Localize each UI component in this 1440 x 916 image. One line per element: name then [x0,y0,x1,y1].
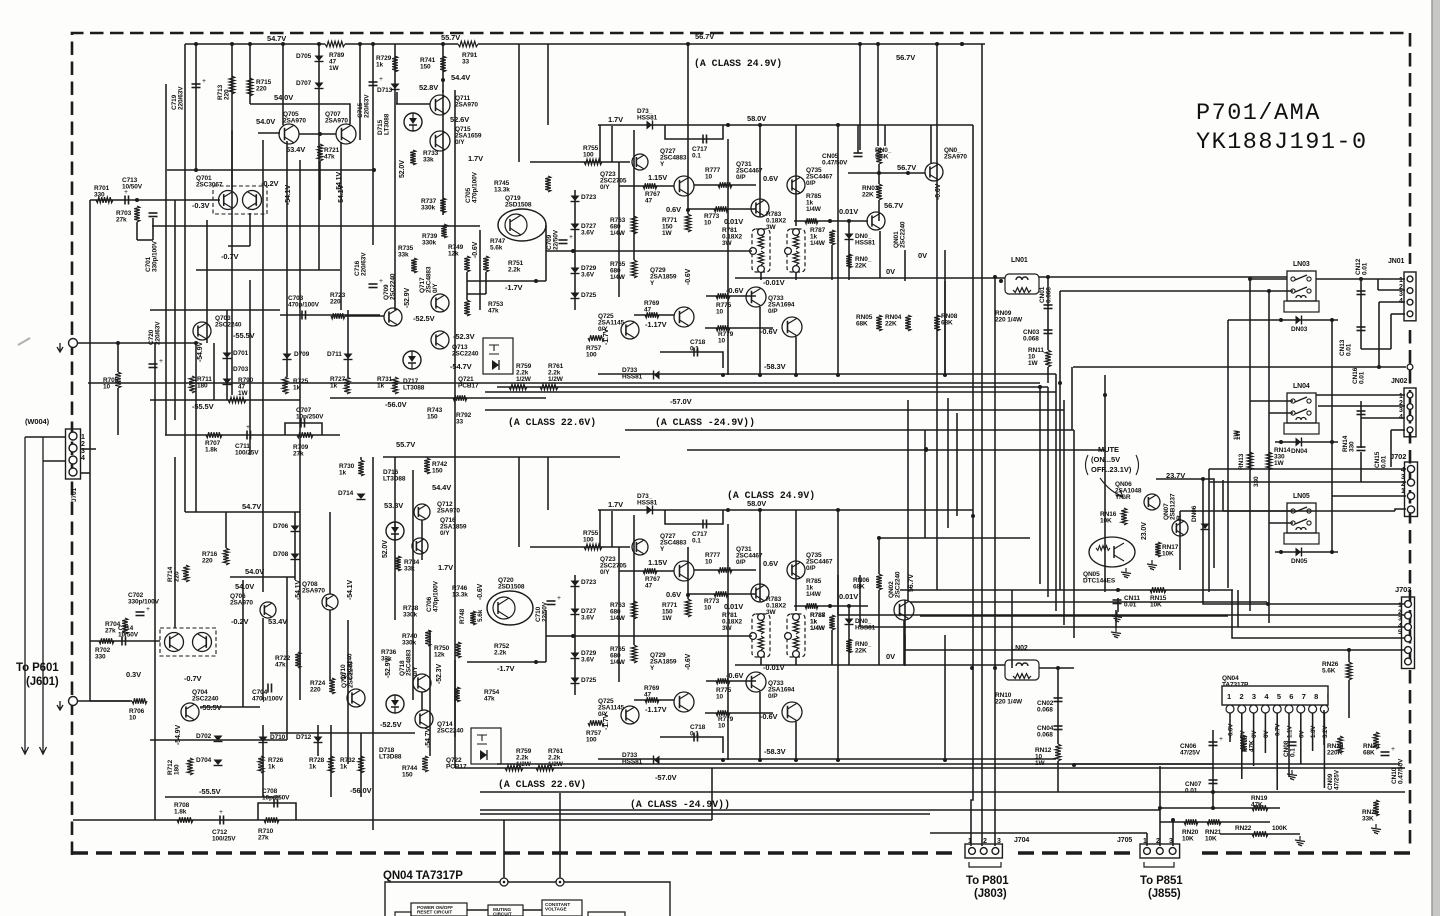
wire wire q733 e ch2 [759,692,761,759]
wire wire r775 ch2 [706,680,756,682]
wire bus v 1056 [1055,374,1057,611]
resistor R725 [282,377,288,394]
node node mid251 ch2 [571,634,575,638]
resistor R702 [99,638,114,644]
photocoupler D715 photocoupler [404,113,422,131]
wire wire QN04 pin4 [1264,713,1266,753]
wire wire pr2 low ch1 [795,272,797,280]
wire xv 348b [347,620,349,764]
svg-text:-0.3V: -0.3V [192,201,210,210]
wire stub d723 ch1 [574,190,576,310]
svg-text:DN03: DN03 [1291,326,1308,333]
wire stub D705 [318,44,320,104]
diode D712 [314,737,323,743]
resistor R779 inline ch2 [716,710,730,716]
wire W004 top right [77,342,196,344]
resistor R723 [331,313,345,319]
svg-text:-57.0V: -57.0V [655,773,677,782]
svg-text:(W004): (W004) [25,417,50,426]
wire wire r779 ch1 [705,327,773,329]
wire wire QN04 pin5 [1276,713,1278,790]
capacitor CN14b [1357,411,1366,415]
svg-text:(A CLASS -24.9V)): (A CLASS -24.9V)) [630,799,730,810]
wire wire q701 base [153,199,220,201]
svg-text:54.0V: 54.0V [256,117,275,126]
wire stub d723 ch2 [574,575,576,695]
resistor R711 [189,376,195,393]
node node 0.01V a ch1 [828,219,832,223]
wire J702 p2 [1332,495,1406,497]
wire bus v 230 [231,130,233,395]
resistor RN07 ch1 [876,148,882,164]
svg-text:-54.1V: -54.1V [347,580,354,600]
diode D725 ch2 [571,678,580,684]
wire wire QN04 pin1 [1229,713,1231,742]
wire wire c703 row [280,314,380,316]
wire xv 443b [442,90,444,215]
resistor R748v [470,611,476,625]
wire col v 838 c2 [837,510,839,760]
capacitor C704 [268,684,272,693]
wire bus v 1040 [1039,385,1041,584]
node node 0.01V b ch1 [847,219,851,223]
photocoupler D718 photocoupler [386,695,404,713]
svg-text:LN03: LN03 [1293,261,1310,268]
svg-text:+: + [1219,735,1223,743]
svg-text:RN13: RN13 [1238,453,1245,470]
wire wire R703 down [136,222,138,240]
svg-text:J704: J704 [1014,837,1029,844]
transistor Q705 [279,124,299,144]
diode D731 ch1 [647,121,653,130]
wire bus v 165 [165,84,167,435]
node dot w004 [194,341,198,345]
wire xv 175b [174,457,176,628]
resistor R726 [258,756,264,773]
decoration mute paren [1086,455,1139,475]
power resistor R781 ch1 [750,229,770,273]
wire xv 422c [421,520,423,560]
resistor R727 [344,377,350,394]
svg-text:-1.17V: -1.17V [645,320,667,329]
transistor Q717b [431,294,449,312]
wire xr 270 [196,269,340,271]
node node q705 base [318,132,322,136]
node rail junction d [281,42,285,46]
wire J703 w2 stub [837,575,839,615]
wire LN02 right [1039,667,1074,669]
svg-text:P701/AMA: P701/AMA [1196,100,1321,127]
svg-text:D712: D712 [296,734,312,741]
wire xv 486q [485,272,487,294]
svg-text:D723: D723 [581,194,597,201]
resistor R737v [440,198,446,213]
svg-text:-0.7V: -0.7V [184,674,202,683]
diode D729 ch1 [571,268,580,274]
wire bus v 1074 [1073,430,1075,638]
diode DN06 [1201,524,1210,530]
svg-text:D714: D714 [338,490,354,497]
resistor R722 [295,652,301,668]
resistor R744 [422,756,428,772]
wire wire q727 base ch2 [619,570,674,572]
node node rn19 [1211,806,1215,810]
terminal JN02 pin0 [1407,364,1413,370]
wire xv 243 [242,580,244,707]
brace J704 [969,862,1001,867]
wire bus v 1160 [1159,766,1161,846]
svg-text:1.15V: 1.15V [648,558,667,567]
wire xv 118c [117,343,119,372]
resistor RN12 [1055,744,1061,761]
node node DN05 a [1279,550,1283,554]
resistor R785 inline ch2 [805,603,818,609]
transistor Q703 [193,322,211,340]
wire ladder v 948 [947,398,949,528]
node node 58.0V ch2 [758,508,762,512]
node node DN04 b [1330,440,1334,444]
wire wire bottom feedback [73,819,712,821]
wire wire powerres mid ch2 [546,635,752,637]
wire xv 330c [329,512,331,594]
resistor R763 ch2 [631,601,637,619]
svg-text:12345: 12345 [1398,602,1402,636]
wire wire rn07 v ch1 [884,125,886,146]
wire relay row LN04 b [1269,412,1293,414]
wire bus v 945 [944,281,946,375]
resistor R708 [177,817,193,823]
wire JN01 cap col [1360,279,1362,349]
wire long wire 367 [1073,366,1406,368]
capacitor C707 [301,419,305,428]
transistor Q723 ch2 [632,539,648,555]
wire wire q711 base [396,103,430,105]
svg-text:1.7V: 1.7V [438,563,453,572]
svg-text:5.6k: 5.6k [477,609,484,622]
wire J703 w4 [1232,590,1404,638]
wire wire q705 base [258,132,280,134]
wire bus ch1 a [88,382,1040,384]
wire rail2 54.7V [185,511,300,513]
resistor R749v [464,256,470,272]
wire wire CN01 v [1047,277,1049,350]
transistor Q737 ch2 [782,702,802,722]
transistor Q701b [243,191,262,210]
resistor RN11 [1045,350,1051,367]
svg-text:(A CLASS 22.6V): (A CLASS 22.6V) [498,779,586,790]
connector JN01 [1404,272,1416,321]
svg-text:POWER ON/OFFRESET CIRCUIT: POWER ON/OFFRESET CIRCUIT [417,905,453,915]
capacitor C717 ch1 [703,135,707,144]
wire wire gnd mid [1115,610,1117,628]
svg-text:-52.9V: -52.9V [404,288,411,308]
inductor LN02 [1005,660,1039,680]
wire bus v 1118 [1117,598,1119,612]
resistor R767 inline ch1 [643,183,657,189]
svg-text:D709: D709 [294,351,310,358]
wire wire -1.7V row [467,280,546,282]
resistor R707 [206,432,222,438]
transistor Q711 [430,95,450,115]
wire wire DN04 row [1275,441,1338,443]
node bus junction n [970,666,974,670]
wire C708 box [258,803,296,820]
diode D706 [291,526,300,532]
resistor R730v [358,460,364,476]
svg-text:To P601: To P601 [16,662,59,674]
wire col v 760 c2 [759,510,761,602]
node node rn20 [1171,818,1175,822]
wire J701 pin3 left [43,460,66,462]
diode DN04 [1296,438,1302,447]
resistor R747 [483,256,489,272]
wire W004 bottom right [77,700,130,702]
capacitor CN08 [1288,742,1297,746]
svg-text:1W: 1W [1235,429,1242,440]
wire stub R741 [442,44,444,92]
svg-text:JN02: JN02 [1391,378,1408,385]
svg-text:+: + [379,75,383,83]
diode DN03 [1296,316,1302,325]
wire wire RN26 low [1348,680,1350,718]
wire col v 905 c2 [904,635,906,666]
svg-text:-52.5V: -52.5V [380,720,402,729]
svg-text:0.6V: 0.6V [666,590,681,599]
wire bus v 995 [994,277,996,846]
box CONSTANT VOLTAGE [542,900,582,916]
svg-text:1.1V: 1.1V [1287,725,1294,738]
svg-text:-0.6V: -0.6V [472,241,479,258]
node node 0V b [993,666,997,670]
svg-text:-52.5V: -52.5V [413,314,435,323]
wire wire pr1 low ch1 [760,272,762,280]
wire wire 55.7V ch2 [383,456,620,458]
resistor R760 inline [505,765,523,771]
wire wire q737 e ch2 [795,722,797,759]
wire bus ch1 b [497,386,1048,388]
wire col v 600 c2 [599,510,601,547]
resistor R777 inline ch2 [718,567,732,573]
wire wire QN04 pin2 [1241,713,1243,779]
wire bus v 1064 [1063,400,1065,625]
resistor R765 ch2 [631,645,637,663]
node node ladder b [971,514,975,518]
wire bus ch2 a [497,763,1400,765]
wire wire -55.5V row [150,399,300,401]
wire stub 548b ch1 [547,44,549,125]
wire J703 w3b [1237,590,1239,627]
diode D727 ch1 [571,224,580,230]
transistor Q720 big [487,591,533,625]
wire J702 p1 bend [1395,509,1406,511]
svg-text:-58.3V: -58.3V [764,362,786,371]
diode D725 ch1 [571,293,580,299]
wire wire c712 down [711,768,713,820]
wire wire 58.0V ch2 [598,509,973,511]
capacitor C703 [302,311,306,320]
node rail junction k [876,42,880,46]
svg-text:-54.9V: -54.9V [197,342,204,362]
resistor R713 [229,76,235,94]
svg-text:0V: 0V [1298,730,1305,738]
resistor R761 inline [540,384,558,390]
resistor R742v [424,458,430,474]
resistor R765 ch1 [631,260,637,278]
svg-text:-0.6V: -0.6V [1228,723,1235,738]
wire xv 395b [394,117,396,310]
wire bus v 341 [340,142,342,310]
transistor QN03 ch1 [925,163,943,181]
svg-text:0.6V: 0.6V [763,559,778,568]
resistor R785 inline ch1 [805,218,818,224]
wire bus v 937 [936,44,938,590]
resistor RN06 [876,574,882,590]
svg-text:56.7V: 56.7V [908,574,915,592]
wire bus ch2 d [480,809,1160,811]
wire wire qn02 e [903,620,905,665]
svg-text:-52.3V: -52.3V [436,664,443,684]
diode D702 [214,736,223,742]
wire wire r773 ch2 [688,593,756,595]
wire wire r775 ch1 [706,295,756,297]
diode D709 [283,354,292,360]
svg-text:0.01V: 0.01V [724,602,743,611]
resistor RN15 [1150,587,1166,593]
wire CN15 v [1360,452,1362,482]
svg-text:-57.0V: -57.0V [670,397,692,406]
capacitor C708 [274,799,278,808]
wire col v 688b c1 [687,162,689,214]
svg-text:RN22: RN22 [1235,825,1252,832]
svg-text:(A CLASS 24.9V): (A CLASS 24.9V) [727,490,815,501]
box MUTING [488,905,523,916]
wire bus v 1012 [1011,590,1013,668]
svg-text:-54.7V: -54.7V [425,728,432,748]
wire bus v 455b [454,457,456,768]
svg-text:3: 3 [997,838,1001,845]
photocoupler D716 photocoupler [386,522,404,540]
node node 544 [441,78,445,82]
wire wire q701 down [249,213,251,246]
wire xv 430g [429,630,431,756]
resistor R757 ch1 [588,335,604,341]
wire wire 23.7V [1156,479,1214,568]
diode D705 [315,56,324,62]
svg-text:+: + [379,277,383,285]
wire col v 634 c2 [633,515,635,645]
wire xv 348 [347,310,349,377]
node bus junction m [1211,790,1215,794]
diode D711 [344,354,353,360]
wire JN02 cap col [1360,401,1362,448]
connector J701 [66,429,81,479]
resistor R740 [425,630,431,646]
resistor R739v [441,224,447,238]
capacitor CN10 [1381,745,1396,756]
wire xv 287 [286,141,288,377]
resistor R734 [395,556,401,571]
wire J702 p3 [1209,481,1406,483]
svg-text:-54.1V: -54.1V [285,185,292,205]
transistor Q718t [413,674,431,692]
wire bus v 300 [299,160,301,512]
capacitor C701 [149,213,158,217]
svg-text:-0.6V: -0.6V [685,653,692,670]
node rail junction m [960,42,964,46]
resistor R753 [464,300,470,316]
node dot 118 [116,341,120,345]
node node relay feed2 [1267,289,1271,293]
node bus junction d [1058,381,1062,385]
transistor Q715 [430,131,450,151]
wire 0V row ch1 [735,277,1005,279]
capacitor C719 [192,77,207,88]
resistor R715 [247,78,253,96]
resistor R732 [358,756,364,773]
transistor Q725 ch2 [621,706,639,724]
resistor R767 inline ch2 [643,568,657,574]
svg-text:53.4V: 53.4V [268,617,287,626]
wire wire 1060 down [1059,291,1061,590]
wire xv 175 [174,200,176,420]
optocoupler Q722 box [471,728,501,764]
node node fb2 [372,168,376,172]
resistor R701 [96,197,113,203]
node bus junction j [943,758,947,762]
wire bus v 283 [282,44,284,125]
ground gnd RN17 [1147,560,1157,570]
wire relay feed a [900,589,1062,591]
resistor R773 inline ch2 [714,591,728,597]
svg-text:1.7V: 1.7V [608,500,623,509]
resistor R769 inline ch2 [645,697,659,703]
svg-text:-55.5V: -55.5V [233,331,255,340]
transistor Q7mid [384,308,402,326]
capacitor CN01 [1044,305,1053,309]
resistor RN01 ch1 [846,254,852,268]
wire wire R755 ch1 [530,161,630,163]
node node 583 a ch1 [721,373,725,377]
svg-text:1234: 1234 [81,434,85,462]
wire col v 619 c1 [618,162,620,297]
node rail junction j [858,42,862,46]
wire bus v 1213 [1212,730,1214,808]
wire wire d713 v [396,92,398,104]
node node mid251 ch1 [571,249,575,253]
wire bus v 455 [454,90,456,457]
node node 567 a ch1 [877,171,881,175]
svg-text:-0.6V: -0.6V [935,183,942,200]
transistor Q713 [431,331,449,349]
diode D704 [214,760,223,766]
transistor Q704 [181,703,199,721]
resistor R716 [223,548,229,565]
wire J701 pin1 left [25,436,66,438]
svg-text:0.6V: 0.6V [763,174,778,183]
wire wire rn22 row [1220,833,1300,835]
svg-text:1.15V: 1.15V [648,173,667,182]
svg-text:0.6V: 0.6V [666,205,681,214]
resistor R771 ch1 [685,214,691,232]
transistor Q733x ch2 [746,672,766,692]
scan mark left top [18,338,30,345]
resistor RN18 [1240,735,1246,751]
wire bus v 196b [195,343,197,512]
svg-text:To P851: To P851 [1140,875,1183,887]
node node j703 a [1266,602,1270,606]
capacitor C709 [559,233,574,244]
svg-text:R74513.3k: R74513.3k [494,180,510,194]
